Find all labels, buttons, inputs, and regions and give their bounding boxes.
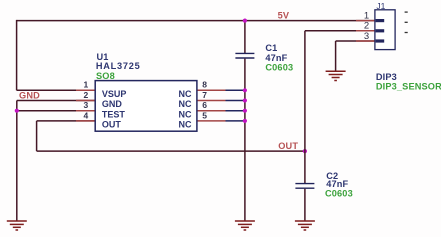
- svg-text:NC: NC: [179, 99, 192, 109]
- pin name dash J1-2: [405, 21, 408, 23]
- pin stub U1 pin8: [197, 89, 226, 91]
- pin name dash J1-1: [405, 11, 408, 13]
- svg-text:GND: GND: [102, 99, 123, 109]
- pin stub J1 pin3: [356, 40, 375, 42]
- wire NC pin7 link: [226, 100, 245, 102]
- wire GND left vertical: [16, 101, 18, 222]
- wire J1 pin3 vertical to ground: [335, 41, 337, 71]
- pin name dash J1-3: [405, 32, 408, 34]
- op-amp U1 HAL3725 body: [95, 81, 197, 132]
- svg-text:OUT: OUT: [278, 141, 298, 151]
- junction node pin5: [243, 119, 247, 123]
- svg-text:3: 3: [83, 100, 88, 110]
- svg-text:NC: NC: [179, 120, 192, 130]
- wire 5V left vertical: [16, 20, 18, 90]
- connector J1 body: [375, 10, 395, 50]
- svg-text:GND: GND: [19, 91, 40, 101]
- wire NC pin6 link: [226, 110, 245, 112]
- junction node pin6: [243, 109, 247, 113]
- wire GND pin3: [17, 110, 95, 112]
- pin stub U1 pin2: [76, 100, 95, 102]
- wire OUT to J1 pin2 vertical: [304, 31, 306, 151]
- capacitor C2: [295, 184, 314, 189]
- pin stub U1 pin5: [197, 120, 226, 122]
- ground symbol center: [235, 221, 255, 230]
- wire OUT down to C2: [304, 151, 306, 183]
- svg-text:2: 2: [83, 90, 88, 100]
- wire OUT left vertical: [36, 121, 38, 151]
- pin stub U1 pin3: [76, 110, 95, 112]
- connector J1 contact pin2: [376, 29, 385, 32]
- pin stub J1 pin2: [356, 30, 375, 32]
- pin stub U1 pin7: [197, 100, 226, 102]
- pin stub U1 pin6: [197, 110, 226, 112]
- svg-text:J1: J1: [376, 1, 385, 11]
- junction node OUT: [303, 149, 307, 153]
- wire C2 to ground: [304, 189, 306, 221]
- pin stub U1 pin4: [76, 120, 95, 122]
- svg-text:5: 5: [202, 110, 207, 120]
- pin stub J1 pin1: [356, 20, 375, 22]
- svg-text:C0603: C0603: [265, 62, 293, 72]
- svg-text:C1: C1: [265, 43, 277, 53]
- ground symbol C2: [295, 221, 315, 230]
- ground symbol left: [7, 221, 27, 230]
- svg-text:1: 1: [83, 80, 88, 90]
- svg-text:VSUP: VSUP: [102, 89, 127, 99]
- wire GND pin2: [17, 100, 95, 102]
- label C2 value: [325, 171, 353, 198]
- svg-text:5V: 5V: [278, 11, 290, 21]
- label C1 value: [265, 43, 293, 72]
- ground symbol J1: [326, 71, 346, 80]
- wire NC pin5 link: [226, 120, 245, 122]
- junction node GND pin3: [15, 109, 19, 113]
- junction node pin8: [243, 88, 247, 92]
- svg-text:DIP3_SENSOR: DIP3_SENSOR: [376, 81, 441, 91]
- wire OUT horizontal: [37, 150, 305, 152]
- junction node 5V/C1: [243, 19, 247, 23]
- pin stub U1 pin1: [76, 89, 95, 91]
- svg-text:7: 7: [202, 90, 207, 100]
- svg-text:HAL3725: HAL3725: [96, 61, 141, 71]
- svg-text:47nF: 47nF: [265, 53, 287, 63]
- svg-text:8: 8: [202, 80, 207, 90]
- wire 5V top rail: [17, 20, 375, 22]
- capacitor C1: [235, 53, 254, 58]
- svg-text:C0603: C0603: [325, 188, 353, 198]
- wire J1 pin2: [305, 30, 375, 32]
- svg-text:6: 6: [202, 100, 207, 110]
- wire OUT pin4: [37, 120, 96, 122]
- wire NC pin8 link: [226, 89, 245, 91]
- wire VSUP pin1: [17, 89, 96, 91]
- svg-text:4: 4: [83, 110, 88, 120]
- connector J1 contact pin1: [376, 19, 385, 22]
- svg-text:SO8: SO8: [96, 71, 115, 81]
- svg-text:TEST: TEST: [102, 109, 126, 119]
- wire J1 pin3: [336, 40, 375, 42]
- junction node pin7: [243, 98, 247, 102]
- svg-text:3: 3: [364, 31, 369, 42]
- connector J1 contact pin3: [376, 39, 385, 42]
- svg-text:NC: NC: [179, 109, 192, 119]
- svg-text:NC: NC: [179, 89, 192, 99]
- wire C1 to ground vertical: [244, 59, 246, 221]
- wire 5V drop to C1: [244, 21, 246, 53]
- svg-text:OUT: OUT: [102, 120, 122, 130]
